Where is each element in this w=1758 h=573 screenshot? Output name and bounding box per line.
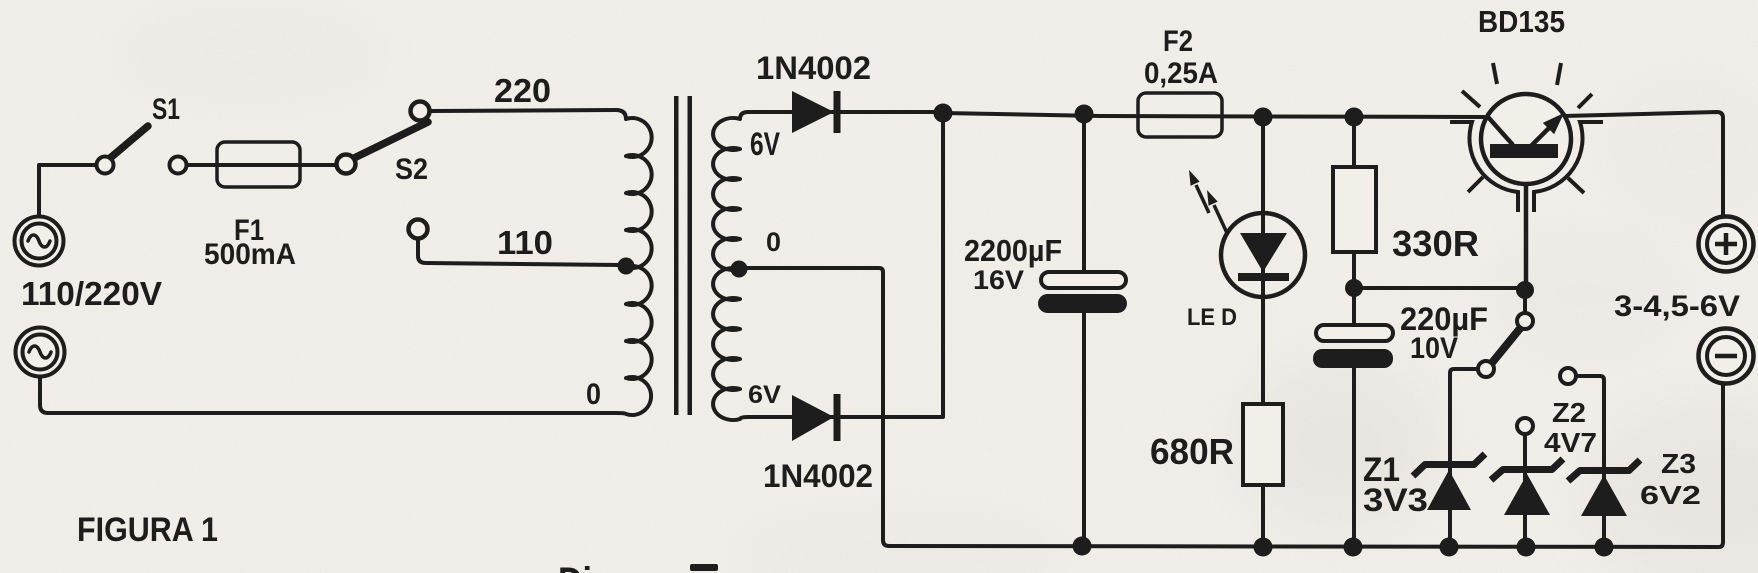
svg-text:3V3: 3V3 (1363, 482, 1428, 518)
svg-text:6V2: 6V2 (1640, 480, 1701, 510)
svg-text:LE D: LE D (1187, 304, 1237, 331)
svg-text:Z2: Z2 (1552, 397, 1586, 428)
svg-text:FIGURA 1: FIGURA 1 (77, 511, 218, 549)
svg-text:110: 110 (497, 224, 553, 261)
svg-text:1N4002: 1N4002 (756, 50, 871, 86)
svg-text:330R: 330R (1392, 223, 1479, 264)
svg-text:BD135: BD135 (1478, 4, 1565, 39)
svg-text:680R: 680R (1150, 431, 1234, 472)
svg-text:S1: S1 (152, 93, 180, 126)
svg-text:220: 220 (494, 72, 551, 109)
svg-text:0,25A: 0,25A (1144, 57, 1218, 90)
svg-text:2200µF: 2200µF (964, 233, 1062, 268)
svg-text:500mA: 500mA (204, 238, 296, 271)
svg-text:110/220V: 110/220V (21, 275, 162, 312)
svg-text:Di: Di (558, 560, 592, 573)
svg-text:3-4,5-6V: 3-4,5-6V (1614, 290, 1740, 323)
svg-text:1N4002: 1N4002 (763, 458, 873, 494)
svg-text:10V: 10V (1410, 332, 1458, 365)
svg-text:0: 0 (586, 378, 601, 411)
svg-text:16V: 16V (973, 265, 1024, 295)
svg-text:4V7: 4V7 (1544, 427, 1597, 458)
svg-text:F2: F2 (1163, 25, 1193, 58)
svg-text:6V: 6V (750, 126, 781, 162)
svg-text:Z3: Z3 (1661, 448, 1696, 479)
svg-text:6V: 6V (748, 381, 781, 409)
svg-text:0: 0 (766, 227, 781, 257)
svg-text:S2: S2 (395, 153, 428, 186)
